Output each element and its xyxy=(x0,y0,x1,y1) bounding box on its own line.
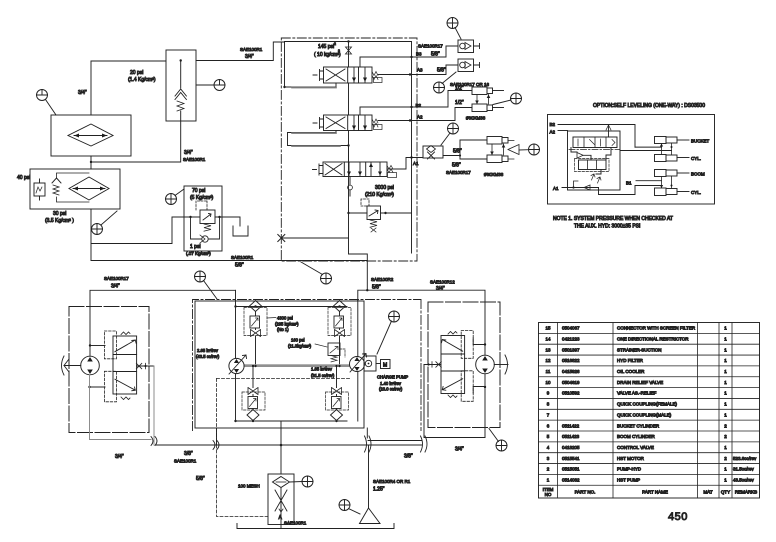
svg-text:1: 1 xyxy=(724,347,727,352)
right motor shaft xyxy=(494,364,508,366)
balloon 3 (hst motor) xyxy=(496,440,507,451)
svg-text:3/4”: 3/4” xyxy=(245,54,254,60)
svg-text:1: 1 xyxy=(724,326,727,331)
boom coupling row xyxy=(655,170,667,177)
A1 line with check xyxy=(562,187,599,189)
svg-text:1: 1 xyxy=(724,358,727,363)
svg-text:HST PUMP: HST PUMP xyxy=(617,478,640,483)
svg-text:M: M xyxy=(383,363,387,369)
svg-text:160 psi: 160 psi xyxy=(291,338,305,343)
svg-text:3/4”: 3/4” xyxy=(184,150,193,156)
drain relief valve box (70psi) xyxy=(184,186,222,251)
svg-text:5/8”: 5/8” xyxy=(431,52,440,58)
svg-text:#60XM38: #60XM38 xyxy=(484,172,504,177)
svg-text:1: 1 xyxy=(724,391,727,396)
balloon 14a (bypass check) xyxy=(214,80,225,91)
svg-text:QUICK COUPLING(FEMALE): QUICK COUPLING(FEMALE) xyxy=(617,402,678,407)
svg-text:3/8”: 3/8” xyxy=(404,454,413,460)
wire: filter to drain relief valve xyxy=(91,217,184,244)
tank outlet jog to SAE100R2 xyxy=(349,238,368,290)
valve 3 A1 port line xyxy=(387,158,423,170)
svg-text:3000 psi: 3000 psi xyxy=(375,185,394,191)
option connecting wires xyxy=(571,148,611,175)
svg-text:1.25”: 1.25” xyxy=(373,487,385,493)
valve 3 spring and detent box xyxy=(387,166,393,173)
relief pilot dashed loop xyxy=(361,199,369,206)
svg-text:0510592: 0510592 xyxy=(562,391,580,396)
right motor drain verticals xyxy=(484,374,486,438)
B2 line to coupling xyxy=(415,91,472,108)
svg-text:CYL.: CYL. xyxy=(691,190,701,195)
center port with X xyxy=(137,365,154,367)
svg-text:NOTE 1. SYSTEM PRESSURE WHEN C: NOTE 1. SYSTEM PRESSURE WHEN CHECKED AT xyxy=(553,216,673,222)
right vertical rail xyxy=(411,42,413,254)
svg-text:1 psi: 1 psi xyxy=(190,244,201,250)
svg-text:2: 2 xyxy=(724,434,727,439)
svg-text:12: 12 xyxy=(545,358,551,363)
svg-text:A2: A2 xyxy=(417,115,423,120)
valve 2 tank line xyxy=(288,131,349,146)
svg-text:SAE100R1: SAE100R1 xyxy=(231,255,254,260)
option inner block xyxy=(568,131,621,190)
left motor circle xyxy=(81,356,100,375)
balloon 7b xyxy=(511,93,522,104)
valve 1 spring xyxy=(372,72,378,80)
valve 1 lever actuator xyxy=(313,70,324,81)
control valve dash-dot enclosure xyxy=(281,38,417,261)
svg-text:PART NO.: PART NO. xyxy=(575,490,596,495)
relief cluster bottom-right xyxy=(331,410,343,421)
svg-text:(210 Kg/cm²): (210 Kg/cm²) xyxy=(365,192,394,198)
svg-text:DRAIN RELIEF VALVE: DRAIN RELIEF VALVE xyxy=(617,380,663,385)
pump assembly dash enclosure xyxy=(193,300,422,431)
svg-text:1: 1 xyxy=(724,336,727,341)
left pump circle xyxy=(229,358,244,373)
svg-text:0516822: 0516822 xyxy=(562,358,580,363)
screen filter connector diamond xyxy=(273,477,290,488)
svg-text:( 10 kg/cm²): ( 10 kg/cm²) xyxy=(314,52,341,58)
valve 2 lever actuator xyxy=(313,118,324,129)
wire SAE100R12 to right motor xyxy=(358,290,485,355)
tank symbol right of drain relief xyxy=(233,226,248,236)
links between A1 couplings xyxy=(492,144,504,155)
valve 2 B2 stub xyxy=(360,107,415,115)
dashed servo boxes right xyxy=(461,331,473,359)
svg-text:0515541: 0515541 xyxy=(562,456,580,461)
valve 2 left envelope X xyxy=(326,117,345,129)
oil cooler arrow xyxy=(74,135,107,137)
bottom interior rail xyxy=(236,420,348,422)
right pump port verticals xyxy=(357,301,359,422)
motor M box xyxy=(381,360,391,369)
dashed servo boxes xyxy=(104,331,116,359)
main bottom line xyxy=(156,444,422,446)
orifice on P drop valve 1 xyxy=(348,42,350,68)
svg-text:OIL COOLER: OIL COOLER xyxy=(617,369,645,374)
balloon 1 (hst pump) xyxy=(195,271,206,282)
svg-text:1: 1 xyxy=(724,412,727,417)
A3 line to coupling xyxy=(415,65,458,75)
valve 1 right envelope arrows xyxy=(354,68,365,82)
right motor circle xyxy=(476,355,495,374)
svg-text:1: 1 xyxy=(547,478,550,483)
svg-text:3: 3 xyxy=(547,456,550,461)
svg-text:SAE100R1: SAE100R1 xyxy=(174,459,197,464)
svg-text:NO: NO xyxy=(545,492,552,497)
B3 line to coupling xyxy=(415,46,458,57)
svg-text:43.5cc/rev: 43.5cc/rev xyxy=(733,478,755,483)
svg-text:10: 10 xyxy=(545,380,551,385)
valve 2 right envelope arrows xyxy=(354,116,365,130)
svg-text:3/4”: 3/4” xyxy=(115,454,124,460)
svg-text:A3: A3 xyxy=(417,68,423,73)
svg-text:15: 15 xyxy=(545,326,551,331)
svg-text:SAE100R1: SAE100R1 xyxy=(284,521,307,526)
relief cluster bottom-left xyxy=(247,410,259,421)
quick coupling pair B2 xyxy=(472,87,487,95)
check valve box (cooler bypass, 20psi) xyxy=(166,50,196,121)
valve 3 pilot orifice below xyxy=(349,177,351,186)
quick coupling male B3 xyxy=(458,40,474,53)
svg-text:A1: A1 xyxy=(413,161,419,166)
quick coupling pair A1 bottom xyxy=(487,155,502,163)
svg-text:VALVE AS.-RELIEF: VALVE AS.-RELIEF xyxy=(617,391,657,396)
svg-text:2: 2 xyxy=(334,42,336,46)
option pilot arrows xyxy=(591,174,601,183)
relief spring below xyxy=(204,224,211,231)
svg-text:40 psi: 40 psi xyxy=(17,175,30,181)
control diagonals xyxy=(115,340,136,352)
main relief valve 3000psi xyxy=(349,212,368,214)
left tank rail xyxy=(284,42,286,88)
svg-text:CONNECTOR WITH SCREEN FILTE: CONNECTOR WITH SCREEN FILTER xyxy=(617,326,696,331)
svg-text:0501397: 0501397 xyxy=(562,347,580,352)
svg-text:0418205: 0418205 xyxy=(562,445,580,450)
filter bypass indicator (square with W) xyxy=(34,183,45,196)
svg-text:(No 1): (No 1) xyxy=(277,327,289,332)
B2 line xyxy=(558,125,635,148)
svg-text:0514082: 0514082 xyxy=(562,478,580,483)
P drop valve2 to valve3 xyxy=(348,131,350,163)
svg-text:1/2”: 1/2” xyxy=(455,100,464,106)
svg-text:B2: B2 xyxy=(550,122,556,127)
tl relief square xyxy=(250,316,260,328)
drain line down (grey) xyxy=(153,366,155,445)
svg-text:(43.5 cc/rev): (43.5 cc/rev) xyxy=(196,354,220,359)
bucket cyl coupling row xyxy=(655,155,667,162)
svg-text:0504067: 0504067 xyxy=(562,326,580,331)
svg-text:20 psi: 20 psi xyxy=(130,70,143,76)
A1 routing to cyl xyxy=(599,186,662,195)
top interior rail xyxy=(236,306,348,308)
svg-text:1.85 in³/rev: 1.85 in³/rev xyxy=(311,367,333,372)
valve 1 A3 line xyxy=(378,74,415,76)
svg-text:BUCKET CYLINDER: BUCKET CYLINDER xyxy=(617,423,660,428)
svg-text:3: 3 xyxy=(338,49,340,53)
svg-text:(.07 Kg/cm²): (.07 Kg/cm²) xyxy=(186,251,211,256)
wire: supply to left motor xyxy=(90,290,236,356)
table frame xyxy=(539,323,760,499)
left motor box xyxy=(69,307,149,433)
dashed case drain lines xyxy=(217,378,352,380)
svg-text:0511422: 0511422 xyxy=(562,423,580,428)
valve 3 middle envelope arrows xyxy=(349,163,360,176)
A2 line to coupling xyxy=(415,108,472,121)
svg-text:5/8”: 5/8” xyxy=(452,163,461,169)
svg-text:1: 1 xyxy=(724,369,727,374)
svg-text:13: 13 xyxy=(545,347,551,352)
svg-text:0504619: 0504619 xyxy=(562,380,580,385)
svg-text:BOOM CYLINDER: BOOM CYLINDER xyxy=(617,434,656,439)
boom cyl coupling row xyxy=(655,188,667,196)
links between B2/A2 couplings xyxy=(477,95,489,105)
right pump circle xyxy=(350,357,365,372)
svg-text:SAE100R17: SAE100R17 xyxy=(104,276,129,281)
svg-text:0415926: 0415926 xyxy=(562,369,580,374)
svg-text:HYD FILTER: HYD FILTER xyxy=(617,358,644,363)
svg-text:THE AUX. HYD: 3000±35 PSI: THE AUX. HYD: 3000±35 PSI xyxy=(574,224,640,230)
svg-text:5/8”: 5/8” xyxy=(235,263,244,269)
svg-text:SAE100R4 OR R1: SAE100R4 OR R1 xyxy=(373,479,411,484)
valve 2 spring xyxy=(372,119,378,127)
svg-text:(5 Kg/cm²): (5 Kg/cm²) xyxy=(190,195,214,201)
svg-text:523.6cc/rev: 523.6cc/rev xyxy=(733,456,757,461)
wire: top line from cooler to check box and on to valve block xyxy=(91,42,285,61)
svg-text:1: 1 xyxy=(724,402,727,407)
check valve with spring inside xyxy=(180,61,182,89)
svg-text:SAE100R1: SAE100R1 xyxy=(183,157,206,162)
svg-text:3/4”: 3/4” xyxy=(111,284,120,290)
strainer box xyxy=(268,474,294,525)
svg-text:B3: B3 xyxy=(416,52,422,57)
svg-text:1: 1 xyxy=(724,478,727,483)
main relief inlet xyxy=(348,146,350,239)
bucket coupling row xyxy=(655,137,667,144)
shaft coupling symbol xyxy=(62,356,70,375)
svg-text:11: 11 xyxy=(546,369,551,374)
oil cooler box xyxy=(51,115,131,156)
svg-text:1: 1 xyxy=(724,445,727,450)
svg-text:OPTION:SELF LEVELING (ONE-WAY): OPTION:SELF LEVELING (ONE-WAY) : DS03500 xyxy=(593,103,705,109)
relief outlet xyxy=(381,212,412,214)
charge pump xyxy=(364,356,376,371)
spool valve 1 (top) body xyxy=(324,67,373,83)
pump block solid box xyxy=(195,301,364,428)
tl bowtie xyxy=(251,330,261,337)
wire through drain relief xyxy=(184,217,240,226)
svg-text:7: 7 xyxy=(547,412,550,417)
svg-text:0511423: 0511423 xyxy=(562,434,580,439)
right motor port frame xyxy=(473,338,485,345)
svg-text:0515051: 0515051 xyxy=(562,467,580,472)
balloon 12 (hyd filter) xyxy=(92,224,103,235)
balloon 11 (oil cooler) xyxy=(37,90,48,101)
svg-text:3/4”: 3/4” xyxy=(78,90,87,96)
svg-text:CONTROL VALVE: CONTROL VALVE xyxy=(617,445,654,450)
charge relief 160psi xyxy=(328,343,340,356)
A2 line xyxy=(558,130,568,132)
balloon 7 xyxy=(434,82,445,93)
balloon 2 (pump-hyd) xyxy=(389,311,400,322)
svg-text:0421223: 0421223 xyxy=(562,336,580,341)
quick coupling male A3 xyxy=(458,59,474,72)
svg-text:MAT: MAT xyxy=(703,490,712,495)
balloon 15b (screen connector) xyxy=(302,476,313,487)
option check valve upper xyxy=(577,153,583,159)
svg-text:(3.5 Kg/cm² ): (3.5 Kg/cm² ) xyxy=(45,218,74,224)
svg-text:(1.4 Kg/cm²): (1.4 Kg/cm²) xyxy=(128,77,156,83)
svg-text:#60XM38: #60XM38 xyxy=(466,116,486,121)
right shaft coupling xyxy=(505,355,508,374)
hyd filter diamond xyxy=(69,177,109,200)
valve 1 tank stub xyxy=(285,83,337,87)
svg-text:CHARGE PUMP: CHARGE PUMP xyxy=(377,375,408,380)
one directional restrictor xyxy=(423,146,443,158)
svg-text:CYL.: CYL. xyxy=(691,156,701,161)
drain relief valve square xyxy=(200,210,215,224)
B2 routing to bucket xyxy=(620,147,672,150)
svg-text:(23.0 cc/rev): (23.0 cc/rev) xyxy=(379,387,403,392)
springs xyxy=(121,332,130,400)
svg-text:SAE100R2: SAE100R2 xyxy=(371,277,394,282)
wire: filter return line to pump circuit xyxy=(91,260,367,262)
svg-text:2: 2 xyxy=(724,423,727,428)
svg-text:BOOM: BOOM xyxy=(691,172,705,177)
option upper spool valve xyxy=(573,137,617,148)
svg-text:1.40 in³/rev: 1.40 in³/rev xyxy=(380,381,402,386)
svg-text:PUMP-HYD: PUMP-HYD xyxy=(617,467,642,472)
balloon 4 (control valve) xyxy=(321,273,332,284)
svg-text:100 MESH: 100 MESH xyxy=(238,484,260,489)
svg-text:QUICK COUPLING(MALE): QUICK COUPLING(MALE) xyxy=(617,412,672,417)
balloon 10 (drain relief valve) xyxy=(166,194,177,205)
svg-text:3/4”: 3/4” xyxy=(436,286,445,292)
filter bypass check with spring xyxy=(52,178,61,183)
funnel to balloon 15 xyxy=(508,141,519,160)
svg-text:(11.3kg/cm²): (11.3kg/cm²) xyxy=(288,344,312,349)
spool valve 2 (middle) body xyxy=(324,115,373,131)
svg-text:A1: A1 xyxy=(553,186,559,191)
quick coupling pair A1 top xyxy=(487,137,502,145)
oil cooler diamond element xyxy=(68,124,113,146)
svg-text:6: 6 xyxy=(547,423,550,428)
hose break marks xyxy=(151,436,427,452)
dashed suction to strainer xyxy=(217,445,269,517)
svg-text:BUCKET: BUCKET xyxy=(691,139,710,144)
plugged port X on left edge xyxy=(281,237,348,239)
svg-text:QTY: QTY xyxy=(721,490,730,495)
check ball xyxy=(202,236,208,242)
svg-text:9: 9 xyxy=(547,391,550,396)
svg-text:3/8”: 3/8” xyxy=(184,451,193,457)
svg-text:5/8”: 5/8” xyxy=(372,285,381,291)
spool valve 3 (bottom) body xyxy=(323,162,387,177)
svg-text:PART NAME: PART NAME xyxy=(642,490,668,495)
valve 3 left envelope X xyxy=(325,164,342,176)
svg-text:STRAINER-SUCTION: STRAINER-SUCTION xyxy=(617,347,662,352)
left motor shaft xyxy=(64,365,81,367)
svg-text:145 psi: 145 psi xyxy=(318,44,334,50)
P rail top xyxy=(285,41,412,43)
left motor control valve rect xyxy=(113,336,137,394)
balloon 8 xyxy=(447,18,458,29)
port stubs xyxy=(90,345,105,347)
svg-text:30 psi: 30 psi xyxy=(53,211,66,217)
svg-text:B2: B2 xyxy=(416,103,422,108)
balloon 13 (strainer suction) xyxy=(339,500,350,511)
svg-text:ITEM: ITEM xyxy=(543,487,554,492)
svg-text:5/8”: 5/8” xyxy=(196,476,205,482)
svg-text:A2: A2 xyxy=(550,130,556,135)
svg-text:5/8”: 5/8” xyxy=(437,68,446,74)
left pump port verticals xyxy=(235,290,237,421)
valve 3 right envelope arrows xyxy=(371,163,380,176)
svg-text:5: 5 xyxy=(547,434,550,439)
valve 3 lever actuator xyxy=(313,164,324,175)
svg-text:SAE100R17: SAE100R17 xyxy=(418,44,443,49)
relief cluster top-left: check diamond xyxy=(250,301,262,312)
svg-text:1/2”: 1/2” xyxy=(455,86,464,92)
tank triangle xyxy=(360,508,381,524)
svg-text:1: 1 xyxy=(724,467,727,472)
bypass check loop xyxy=(191,217,220,239)
svg-text:450: 450 xyxy=(668,511,688,523)
svg-text:1: 1 xyxy=(724,380,727,385)
svg-text:4300 psi: 4300 psi xyxy=(277,316,293,321)
suction from tank: vertical xyxy=(368,446,370,508)
svg-text:5/8”: 5/8” xyxy=(453,149,462,155)
verticals to bottom line xyxy=(216,428,218,445)
svg-text:(31.5 cc/rev): (31.5 cc/rev) xyxy=(311,373,335,378)
svg-text:2.65 in³/rev: 2.65 in³/rev xyxy=(197,348,219,353)
svg-text:70 psi: 70 psi xyxy=(192,188,205,194)
svg-text:SAE100R17: SAE100R17 xyxy=(446,170,471,175)
option dash rail xyxy=(569,149,620,151)
valve 1 left envelope X xyxy=(326,69,345,81)
strainer X symbol xyxy=(280,488,282,529)
relief cluster top-right: check diamond xyxy=(334,301,346,312)
option lower spool valve xyxy=(579,160,607,170)
links boom rows xyxy=(662,177,672,189)
A1 coupling branch lines xyxy=(460,140,487,159)
links bucket rows xyxy=(662,144,672,155)
right motor box xyxy=(428,302,500,428)
svg-text:31.5cc/rev: 31.5cc/rev xyxy=(733,467,755,472)
svg-text:2: 2 xyxy=(547,467,550,472)
svg-text:3/4”: 3/4” xyxy=(455,447,464,453)
svg-text:REMARKS: REMARKS xyxy=(735,490,757,495)
svg-text:SAE100R1: SAE100R1 xyxy=(240,47,263,52)
svg-text:2: 2 xyxy=(724,456,727,461)
quick coupling pair A2 xyxy=(472,104,487,112)
valve 1 B3 stub xyxy=(360,57,415,67)
hyd filter box xyxy=(30,169,120,209)
valve 2 A2 line xyxy=(378,120,415,122)
svg-text:(295 kg/cm²): (295 kg/cm²) xyxy=(275,322,299,327)
right motor center port with X xyxy=(424,364,441,366)
svg-text:B1: B1 xyxy=(626,181,632,186)
svg-text:ONE DIRECTIONAL RESTRICTOR: ONE DIRECTIONAL RESTRICTOR xyxy=(617,336,689,341)
node: junction in check box line xyxy=(180,59,182,61)
tl dashed box xyxy=(244,308,267,336)
svg-text:14: 14 xyxy=(545,336,551,341)
P drop valve1 to valve2 xyxy=(348,83,350,115)
svg-text:SAE100R12: SAE100R12 xyxy=(430,280,455,285)
svg-text:4: 4 xyxy=(547,445,550,450)
svg-text:A: A xyxy=(279,515,283,521)
balloon 14 xyxy=(448,123,459,134)
charge rail xyxy=(244,365,350,367)
